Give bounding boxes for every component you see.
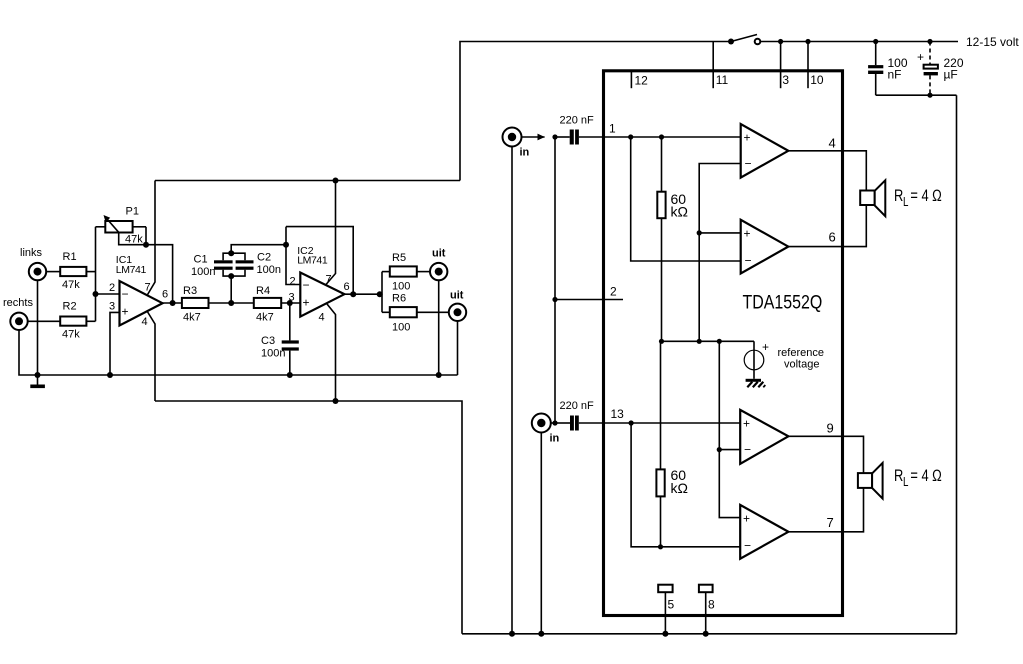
svg-text:2: 2 xyxy=(610,285,617,299)
svg-text:L: L xyxy=(903,476,908,489)
svg-text:kΩ: kΩ xyxy=(671,480,688,496)
svg-text:47k: 47k xyxy=(62,279,80,291)
node R1 R2 P1 xyxy=(93,291,99,297)
svg-text:R: R xyxy=(894,188,903,206)
pin 9 output wire xyxy=(788,421,863,474)
capacitor 220nF input 1 xyxy=(555,115,741,145)
svg-text:−: − xyxy=(745,254,752,268)
svg-text:47k: 47k xyxy=(125,234,143,246)
wire in1 to pin2 to in2 xyxy=(554,137,556,423)
node IC2 pin7 rail xyxy=(333,178,339,184)
svg-text:100n: 100n xyxy=(261,348,285,360)
wire ground rail xyxy=(19,330,458,375)
svg-text:−: − xyxy=(745,157,752,171)
wire IC2 inverting input xyxy=(286,227,300,285)
speaker RL 1 xyxy=(860,180,942,216)
mid reference rail xyxy=(662,340,755,342)
svg-text:nF: nF xyxy=(888,68,902,82)
wire op1 minus vertical chain xyxy=(699,164,741,342)
svg-text:4k7: 4k7 xyxy=(183,312,201,324)
svg-text:L: L xyxy=(903,196,908,209)
svg-text:= 4 Ω: = 4 Ω xyxy=(910,188,941,206)
wire IC2 output xyxy=(344,293,382,295)
node output to R5 R6 xyxy=(377,291,383,297)
capacitor C3 100n xyxy=(261,303,299,378)
reference voltage source xyxy=(744,340,824,387)
svg-text:+: + xyxy=(744,131,751,145)
resistor R3 4k7 xyxy=(182,285,254,324)
svg-text:+: + xyxy=(917,50,924,64)
svg-text:12-15 volt: 12-15 volt xyxy=(966,35,1019,49)
svg-text:µF: µF xyxy=(944,68,958,82)
node R3 R4 C1C2 xyxy=(228,300,234,306)
wire op-amp bottom rail xyxy=(155,401,462,634)
resistor R6 100 xyxy=(382,293,449,334)
wire to IC1 inverting input xyxy=(96,293,120,295)
wire jack1 ground xyxy=(511,147,513,634)
IC2 pin7 supply stub xyxy=(326,181,336,285)
svg-text:12: 12 xyxy=(635,74,649,88)
input jack in 2 xyxy=(532,414,560,445)
pin 10 stub xyxy=(805,39,823,88)
svg-text:47k: 47k xyxy=(62,329,80,341)
svg-text:links: links xyxy=(20,247,43,259)
svg-text:220 nF: 220 nF xyxy=(560,115,595,127)
svg-text:R3: R3 xyxy=(183,285,197,297)
svg-text:+: + xyxy=(303,296,310,310)
op-amp power 4 xyxy=(740,505,788,559)
svg-text:in: in xyxy=(520,147,530,159)
node uit1 ground xyxy=(436,372,442,378)
pin 12 stub xyxy=(631,71,648,88)
resistor 60k upper xyxy=(657,137,688,341)
svg-text:R1: R1 xyxy=(63,251,77,263)
svg-text:kΩ: kΩ xyxy=(671,204,688,220)
svg-text:100: 100 xyxy=(392,322,410,334)
svg-text:−: − xyxy=(744,443,751,457)
svg-text:LM741: LM741 xyxy=(297,255,328,267)
wire right side vertical xyxy=(956,95,958,634)
svg-text:= 4 Ω: = 4 Ω xyxy=(910,468,941,486)
wire IC1 output xyxy=(163,302,182,304)
svg-text:−: − xyxy=(122,287,129,301)
wire op3 minus xyxy=(719,449,740,451)
svg-text:−: − xyxy=(303,278,310,292)
wire links jack ground xyxy=(37,280,39,375)
node in1 xyxy=(552,134,557,139)
svg-text:4: 4 xyxy=(829,136,836,151)
node pin1 feedback xyxy=(628,134,633,139)
svg-text:2: 2 xyxy=(109,282,115,294)
svg-text:+: + xyxy=(744,227,751,241)
op-amp IC1 LM741 xyxy=(109,254,168,328)
op-amp power 1 xyxy=(741,124,789,178)
node ref branch xyxy=(717,339,722,344)
pin 8 stub xyxy=(699,585,715,637)
svg-text:13: 13 xyxy=(611,407,625,421)
svg-text:+: + xyxy=(762,340,769,354)
capacitor 220nF input 2 xyxy=(555,400,740,431)
svg-text:5: 5 xyxy=(668,598,675,612)
resistor 60k lower xyxy=(656,341,688,547)
svg-text:11: 11 xyxy=(716,73,729,87)
op-amp power 2 xyxy=(741,220,789,274)
svg-text:2: 2 xyxy=(290,276,296,288)
IC2 pin4 supply stub xyxy=(327,304,336,401)
switch S1 xyxy=(728,35,760,45)
svg-text:reference: reference xyxy=(778,347,824,359)
pin 11 stub xyxy=(713,42,728,89)
node op chain mid xyxy=(697,339,702,344)
svg-text:4: 4 xyxy=(319,312,325,324)
wire feedback2 to op4 minus xyxy=(631,423,740,547)
speaker RL 2 xyxy=(858,463,942,499)
svg-text:+: + xyxy=(743,417,750,431)
svg-text:C3: C3 xyxy=(261,335,275,347)
resistor R2 47k xyxy=(60,301,95,341)
svg-text:7: 7 xyxy=(827,515,834,530)
node pin13 feedback xyxy=(629,420,634,425)
pin 5 stub xyxy=(658,585,674,637)
svg-text:4k7: 4k7 xyxy=(256,312,274,324)
pin 6 output wire xyxy=(788,205,866,247)
svg-text:+: + xyxy=(743,512,750,526)
op-amp power 3 xyxy=(740,410,788,464)
wire summing node vertical xyxy=(95,227,97,321)
svg-text:R: R xyxy=(894,468,903,486)
capacitor 220uF electrolytic xyxy=(917,39,964,98)
wire bottom ground rail xyxy=(462,633,957,635)
wire P1 to IC1 output xyxy=(146,245,173,303)
resistor R4 4k7 xyxy=(254,285,300,324)
node op2 plus xyxy=(697,230,702,235)
svg-text:+: + xyxy=(122,305,129,319)
capacitor 100nF decoupling xyxy=(868,39,908,95)
resistor R1 47k xyxy=(60,251,95,291)
svg-text:3: 3 xyxy=(289,291,295,303)
node P1 feedback xyxy=(143,242,149,248)
svg-text:6: 6 xyxy=(344,281,350,293)
svg-text:3: 3 xyxy=(782,73,789,87)
svg-text:uit: uit xyxy=(450,290,464,302)
svg-text:C2: C2 xyxy=(257,252,271,264)
wire IC2 feedback top xyxy=(286,227,353,295)
svg-text:6: 6 xyxy=(162,289,168,301)
IC1 pin4 supply stub xyxy=(147,311,155,401)
svg-text:10: 10 xyxy=(810,73,824,87)
node in2 xyxy=(552,420,557,425)
svg-text:uit: uit xyxy=(432,248,446,260)
svg-text:R6: R6 xyxy=(392,293,406,305)
wire decoupling caps bottom xyxy=(876,94,957,96)
wire R5 R6 bracket xyxy=(381,272,383,313)
svg-text:1: 1 xyxy=(609,122,616,136)
svg-text:LM741: LM741 xyxy=(116,264,147,276)
wire ref to op3 minus op4 plus xyxy=(719,341,740,517)
svg-text:in: in xyxy=(550,433,560,445)
svg-text:rechts: rechts xyxy=(3,297,33,309)
wire power rail right part xyxy=(760,41,958,43)
svg-text:R5: R5 xyxy=(392,252,406,264)
wire uit1 ground xyxy=(438,280,440,375)
wire op2 plus xyxy=(699,232,741,234)
node IC1 pin3 ground xyxy=(107,372,113,378)
svg-text:8: 8 xyxy=(708,598,715,612)
wire power rail left part xyxy=(460,42,731,181)
wire op-amp top supply rail xyxy=(155,180,460,182)
IC1 pin3 wire to ground xyxy=(110,312,120,375)
svg-text:P1: P1 xyxy=(126,206,139,218)
wire uit2 ground xyxy=(457,321,459,375)
wire feedback1 to op2 minus xyxy=(631,137,741,261)
node jack2 ground rail xyxy=(538,631,544,637)
node pin2 xyxy=(552,297,557,302)
IC1 pin7 supply stub xyxy=(147,181,155,296)
svg-text:C1: C1 xyxy=(194,254,208,266)
pin 7 output wire xyxy=(788,488,863,532)
node feedback output xyxy=(350,291,356,297)
node R4 C3 IC2 xyxy=(287,300,293,306)
wire jack2 ground xyxy=(540,433,542,634)
node C1C2 to feedback xyxy=(283,242,289,248)
svg-text:4: 4 xyxy=(142,316,148,328)
output jack uit 2 xyxy=(449,290,466,321)
input jack links xyxy=(20,247,60,280)
svg-text:6: 6 xyxy=(829,230,836,245)
svg-text:100n: 100n xyxy=(257,264,281,276)
pin 3 stub xyxy=(778,39,789,88)
node pin1 60k xyxy=(659,134,664,139)
op-amp IC2 LM741 xyxy=(289,245,350,324)
capacitor C1 C2 parallel pair xyxy=(191,245,286,303)
node op3 minus xyxy=(717,447,722,452)
node 60k1 bottom xyxy=(659,339,664,344)
node jack1 ground rail xyxy=(509,631,515,637)
resistor R5 100 xyxy=(382,252,430,293)
node IC1 output xyxy=(170,300,176,306)
svg-text:TDA1552Q: TDA1552Q xyxy=(743,291,823,313)
svg-text:3: 3 xyxy=(109,300,115,312)
svg-text:220 nF: 220 nF xyxy=(560,400,595,412)
pin 4 output wire xyxy=(788,136,866,191)
ground symbol xyxy=(30,375,45,388)
svg-text:R2: R2 xyxy=(63,301,77,313)
svg-text:9: 9 xyxy=(827,421,834,436)
node ground symbol xyxy=(35,372,41,378)
pin 2 stub xyxy=(555,285,623,300)
node IC2 pin4 rail xyxy=(333,398,339,404)
TDA1552Q box xyxy=(604,71,843,616)
svg-text:voltage: voltage xyxy=(784,359,819,371)
svg-text:−: − xyxy=(744,539,751,553)
svg-text:100n: 100n xyxy=(191,266,215,278)
input jack rechts xyxy=(3,297,60,330)
output jack uit 1 xyxy=(430,248,447,281)
input jack in 1 xyxy=(503,128,545,159)
svg-text:R4: R4 xyxy=(256,285,270,297)
potentiometer P1 47k xyxy=(96,206,147,246)
svg-text:100: 100 xyxy=(392,281,410,293)
node 60k2 bottom xyxy=(658,544,663,549)
